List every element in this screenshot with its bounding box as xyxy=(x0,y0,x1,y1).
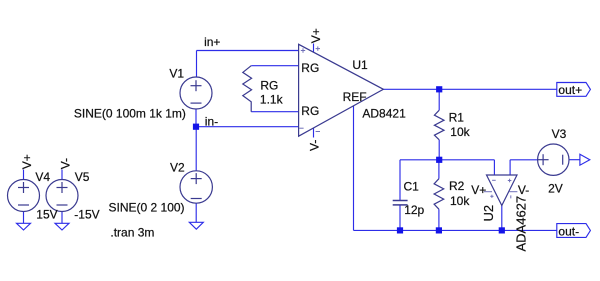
svg-text:V-: V- xyxy=(307,140,321,151)
svg-text:out-: out- xyxy=(558,224,579,238)
svg-text:C1: C1 xyxy=(404,180,420,194)
svg-text:R2: R2 xyxy=(449,179,465,193)
svg-text:1.1k: 1.1k xyxy=(260,93,284,107)
svg-text:SINE(0 2 100): SINE(0 2 100) xyxy=(109,201,185,215)
svg-text:RG: RG xyxy=(301,61,319,75)
svg-text:-15V: -15V xyxy=(74,208,99,222)
svg-text:V-: V- xyxy=(58,158,72,169)
svg-text:V4: V4 xyxy=(35,170,50,184)
svg-text:V2: V2 xyxy=(170,161,185,175)
svg-text:10k: 10k xyxy=(450,125,470,139)
svg-text:ADA4627: ADA4627 xyxy=(514,196,529,252)
svg-text:in-: in- xyxy=(205,114,218,128)
svg-text:U1: U1 xyxy=(352,58,368,72)
svg-text:V-: V- xyxy=(518,183,529,197)
svg-text:V1: V1 xyxy=(169,66,184,80)
svg-text:12p: 12p xyxy=(404,203,424,217)
svg-text:in+: in+ xyxy=(204,35,220,49)
svg-text:V+: V+ xyxy=(471,183,486,197)
svg-text:out+: out+ xyxy=(558,83,582,97)
svg-text:.tran 3m: .tran 3m xyxy=(110,225,154,239)
svg-text:SINE(0 100m 1k 1m): SINE(0 100m 1k 1m) xyxy=(74,106,186,120)
svg-text:U2: U2 xyxy=(481,205,496,222)
svg-text:AD8421: AD8421 xyxy=(362,106,406,120)
svg-text:R1: R1 xyxy=(449,111,465,125)
svg-text:REF: REF xyxy=(343,90,367,104)
svg-text:V5: V5 xyxy=(75,170,90,184)
svg-text:2V: 2V xyxy=(548,181,563,195)
svg-text:V+: V+ xyxy=(20,154,34,169)
svg-text:RG: RG xyxy=(301,104,319,118)
svg-text:15V: 15V xyxy=(36,208,57,222)
svg-text:10k: 10k xyxy=(450,194,470,208)
svg-text:V3: V3 xyxy=(552,127,567,141)
svg-text:RG: RG xyxy=(260,79,278,93)
svg-text:V+: V+ xyxy=(309,28,323,43)
